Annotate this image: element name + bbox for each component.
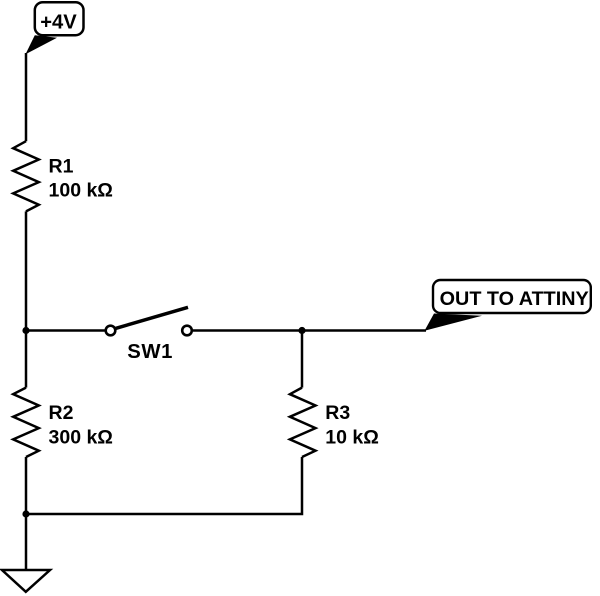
svg-text:SW1: SW1 — [127, 341, 173, 363]
svg-text:OUT TO ATTINY: OUT TO ATTINY — [440, 288, 589, 310]
svg-text:R2: R2 — [49, 402, 74, 424]
svg-text:300 kΩ: 300 kΩ — [49, 426, 113, 448]
svg-text:10 kΩ: 10 kΩ — [325, 426, 379, 448]
svg-text:100 kΩ: 100 kΩ — [49, 179, 113, 201]
svg-text:R3: R3 — [325, 402, 350, 424]
svg-text:R1: R1 — [49, 155, 74, 177]
svg-text:+4V: +4V — [40, 12, 77, 34]
